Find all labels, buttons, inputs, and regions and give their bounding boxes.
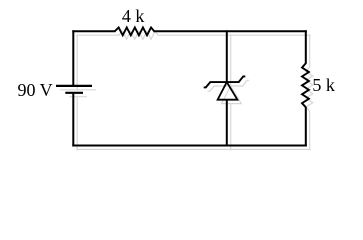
wire bottom <box>72 145 306 147</box>
svg-text:5 k: 5 k <box>312 75 335 95</box>
battery V1 90V long plate <box>56 85 92 87</box>
resistor R2 5k zigzag <box>302 63 309 107</box>
wire top-right segment <box>154 30 307 32</box>
battery V1 90V short plate <box>65 92 83 94</box>
wire middle rail upper <box>226 30 228 82</box>
ghost shadow offset copy of schematic <box>60 31 313 150</box>
wire middle rail lower <box>226 100 228 147</box>
zener diode D1 cathode bar with bent ends <box>204 76 246 87</box>
wire left rail lower <box>72 93 74 147</box>
resistor R1 4k zigzag <box>115 27 155 35</box>
wire top-left segment <box>72 30 115 32</box>
svg-text:90 V: 90 V <box>18 80 53 100</box>
zener diode D1 anode triangle <box>218 82 238 100</box>
wire left rail upper <box>72 30 74 86</box>
svg-text:4 k: 4 k <box>122 6 144 26</box>
wire right rail lower <box>305 107 307 147</box>
wire right rail upper <box>305 30 307 64</box>
